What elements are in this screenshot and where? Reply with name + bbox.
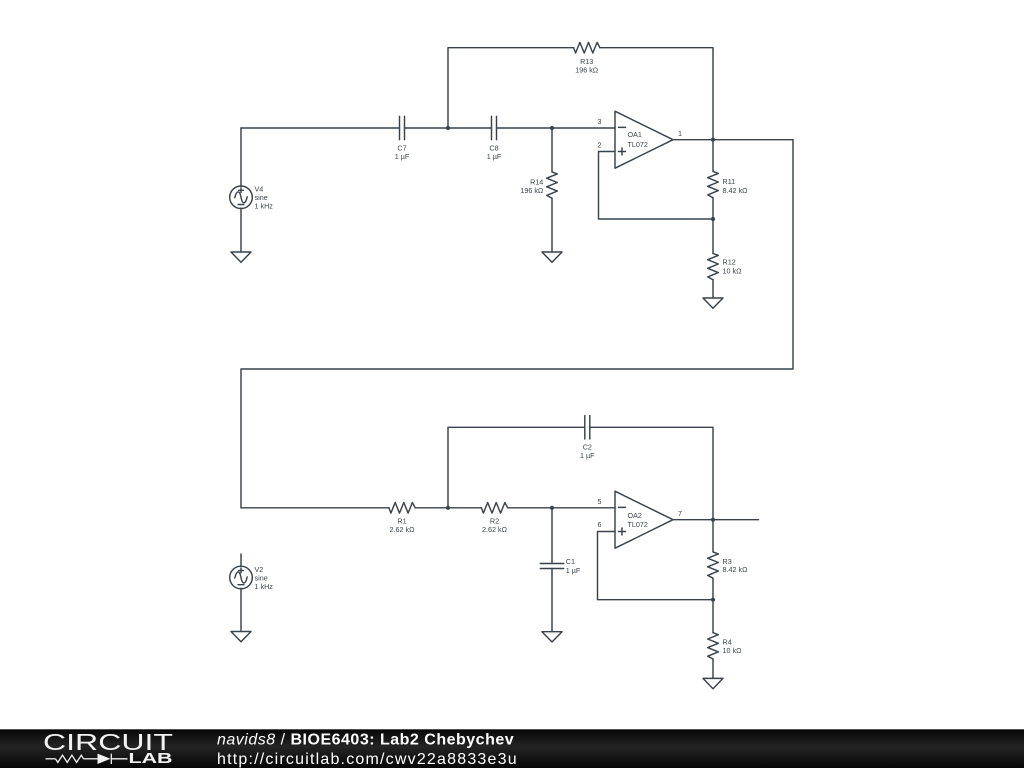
svg-text:6: 6 [598,520,602,529]
node: junction of C7/C8 and R13 feedback [446,126,450,130]
svg-text:1 µF: 1 µF [487,152,502,161]
node: OA2 output junction [711,518,715,522]
svg-text:10 kΩ: 10 kΩ [723,646,743,655]
svg-text:2.62 kΩ: 2.62 kΩ [390,525,416,534]
node: junction R1/R2/C2 loop [446,506,450,510]
wire: R13 feedback loop (left vertical + top horizontal + right vertical) [448,48,574,128]
node: junction of C8, R14 and op-amp input [550,126,554,130]
capacitor C7 [400,116,405,139]
svg-text:navids8 / BIOE6403: Lab2 Cheby: navids8 / BIOE6403: Lab2 Chebychev [217,732,514,749]
resistor R13 [574,42,600,53]
svg-text:196 kΩ: 196 kΩ [520,186,544,195]
wire: op-amp OA2 plus-input feedback loop [598,532,714,600]
svg-text:2: 2 [598,141,602,150]
wire: V2 bottom lead [240,588,242,631]
wire: V4 bottom lead [240,208,242,252]
op-amp OA1 [615,111,673,168]
svg-text:3: 3 [598,117,602,126]
svg-text:1 kHz: 1 kHz [255,202,274,211]
wire: V4 top lead up to main corner [240,128,242,187]
svg-text:1: 1 [678,129,682,138]
svg-text:2.62 kΩ: 2.62 kΩ [482,525,508,534]
svg-text:1 µF: 1 µF [395,152,410,161]
ground: below V4 [231,252,251,262]
svg-text:OA1: OA1 [628,130,642,139]
svg-text:C1: C1 [566,557,575,566]
ground: below R4 [703,678,723,688]
ground: below V2 [231,632,251,642]
resistor R3 [708,520,719,600]
wire: C7 right plate to junction and to C8 left plate [405,127,492,129]
capacitor C2 [585,416,590,439]
wire: C2 right side down to output junction [590,427,713,519]
wire: C2 feedback loop (left vertical + top horizontal to cap) [448,427,585,508]
wire: OA1 output to long feedback corner [673,139,793,141]
svg-text:TL072: TL072 [628,520,648,529]
svg-text:5: 5 [598,497,602,506]
node: junction R2/C1/op-amp [550,506,554,510]
resistor R1 [389,503,415,514]
wire: main input wire from corner to C7 left plate [241,127,400,129]
op-amp OA2 [615,491,673,548]
svg-text:10 kΩ: 10 kΩ [723,266,743,275]
resistor R11 [708,140,719,219]
voltage source V4 [230,186,253,209]
wire: long inter-stage feedback (right vertical, middle horizontal, left vertical) [241,140,793,508]
node: junction R11/R12/plus loop [711,217,715,221]
wire: C8 right plate to op-amp minus input [497,127,616,129]
svg-text:1 µF: 1 µF [580,451,595,460]
svg-text:OA2: OA2 [628,511,642,520]
logo resistor-diode line [46,754,128,764]
svg-text:http://circuitlab.com/cwv22a88: http://circuitlab.com/cwv22a8833e3u [217,751,518,768]
ground: below R12 [703,298,723,308]
svg-text:LAB: LAB [129,750,173,767]
svg-text:R14: R14 [530,178,543,187]
svg-text:R11: R11 [723,177,736,186]
resistor R2 [481,503,507,514]
wire: stage2 main wire corner to R1 [241,507,389,509]
wire: OA2 output stub [673,519,759,521]
svg-text:1 µF: 1 µF [566,566,581,575]
svg-text:7: 7 [678,509,682,518]
svg-text:1 kHz: 1 kHz [255,582,274,591]
resistor R12 [708,219,719,298]
node: junction R3/R4/plus loop [711,598,715,602]
wire: R1 to junction to R2 [415,507,481,509]
capacitor C8 [492,116,497,139]
voltage source V2 [230,554,253,589]
svg-text:8.42 kΩ: 8.42 kΩ [723,186,749,195]
wire: op-amp OA1 plus-input feedback loop [599,152,714,220]
capacitor C1 [540,508,563,632]
svg-text:TL072: TL072 [628,140,648,149]
ground: below R14 [542,252,562,262]
wire: R2 to junction to op-amp minus input [508,507,615,509]
svg-text:8.42 kΩ: 8.42 kΩ [723,565,749,574]
svg-text:R12: R12 [723,258,736,267]
ground: below C1 [542,632,562,642]
svg-text:196 kΩ: 196 kΩ [575,66,599,75]
resistor R4 [708,600,719,679]
resistor R14 [547,128,558,252]
node: OA1 output junction [711,138,715,142]
